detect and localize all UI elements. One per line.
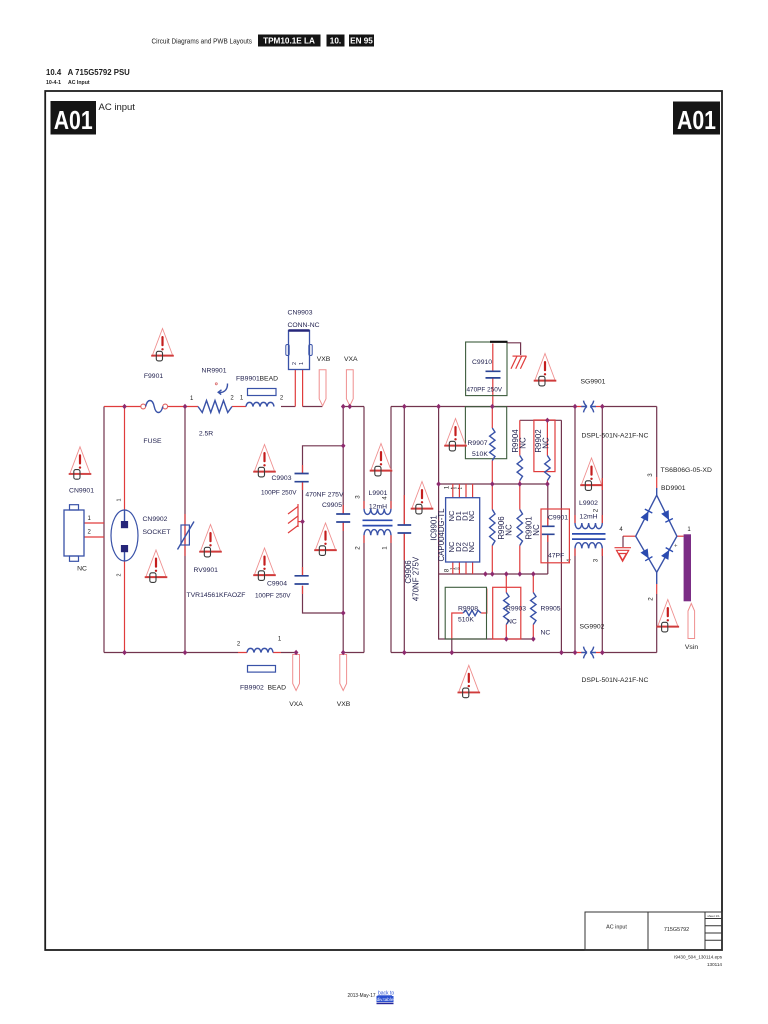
connector CN9901 — [64, 488, 94, 573]
wire R9908 connections — [452, 589, 487, 639]
wire CN9901 pins — [84, 523, 104, 537]
svg-text:NC: NC — [532, 524, 541, 536]
svg-text:715G5792: 715G5792 — [664, 927, 689, 933]
capacitor C9910 — [466, 342, 508, 396]
svg-text:470PF 250V: 470PF 250V — [467, 387, 503, 394]
wire Y-cap branch bottom — [303, 586, 344, 613]
svg-text:NC: NC — [467, 510, 476, 521]
svg-text:12mH: 12mH — [579, 514, 597, 521]
svg-text:I9430_504_130114.eps: I9430_504_130114.eps — [674, 955, 723, 960]
wire live bus at C9905 — [343, 406, 364, 408]
warning triangle at F9901 — [151, 329, 174, 361]
svg-text:AC Input: AC Input — [68, 80, 90, 86]
resistor R9901 — [517, 510, 541, 546]
wire bridge pin 3 net — [656, 407, 658, 478]
earth ground at bridge pin 4 — [615, 548, 632, 562]
svg-text:R9905: R9905 — [541, 606, 561, 613]
wire L9901 pin 3 — [363, 407, 365, 509]
svg-text:L9901: L9901 — [369, 490, 388, 497]
warning triangle at C9903 — [253, 445, 276, 477]
capacitor C9904 — [255, 576, 309, 600]
wire R9904 R9902 top link — [520, 419, 562, 421]
svg-text:DSPL-501N-A21F-NC: DSPL-501N-A21F-NC — [582, 433, 649, 440]
warning triangle at C9905 — [314, 523, 337, 555]
svg-text:FB9902: FB9902 — [240, 685, 264, 692]
wire L9901 pin 4 — [390, 407, 392, 509]
svg-text:C9903: C9903 — [271, 475, 291, 482]
wire IC bottom bus — [439, 573, 548, 575]
wire long NC net — [560, 420, 562, 652]
wire FB9902 stubs — [238, 652, 281, 654]
wire fuse to NR9901 — [168, 406, 198, 408]
junction nodes — [122, 404, 604, 655]
warning triangle at CN9902 — [145, 550, 168, 582]
svg-text:2: 2 — [280, 396, 284, 402]
svg-text:R9903: R9903 — [506, 606, 526, 613]
spark gap SG9902 — [580, 624, 605, 659]
svg-text:2: 2 — [117, 574, 123, 577]
warning triangle at C9906 — [411, 482, 434, 514]
wire R9905 stubs — [532, 574, 534, 639]
net flag VXA bottom — [289, 655, 303, 709]
wire CN9902 net — [124, 407, 126, 653]
svg-text:1: 1 — [278, 637, 282, 643]
wire IC top bus — [439, 483, 548, 485]
title block box — [585, 912, 722, 950]
svg-text:EN 95: EN 95 — [350, 37, 373, 46]
svg-text:VXB: VXB — [337, 701, 351, 708]
svg-text:2: 2 — [88, 530, 92, 536]
svg-text:CN9903: CN9903 — [288, 310, 313, 317]
wire SG9901 stubs — [575, 406, 602, 408]
svg-text:BEAD: BEAD — [268, 685, 287, 692]
svg-text:NC: NC — [77, 566, 87, 573]
warning triangle at L9902 — [580, 458, 603, 490]
schematic frame — [45, 91, 722, 950]
capacitor C9905 — [305, 492, 350, 523]
svg-text:VXA: VXA — [344, 356, 358, 363]
svg-text:10.: 10. — [330, 37, 341, 46]
svg-text:TVR14561KFAOZF: TVR14561KFAOZF — [187, 592, 246, 599]
resistor R9906 — [490, 510, 514, 546]
svg-text:div.table: div.table — [377, 997, 394, 1002]
resistor R9907 — [465, 407, 506, 461]
wire bridge pin 2 net — [656, 572, 658, 584]
wire L9901 pin 2 — [363, 535, 365, 652]
svg-text:R9908: R9908 — [458, 606, 478, 613]
svg-text:100PF 250V: 100PF 250V — [261, 490, 297, 497]
wire SG9902 stubs — [575, 652, 602, 654]
svg-text:100PF 250V: 100PF 250V — [255, 593, 291, 600]
svg-text:+: + — [674, 544, 678, 550]
warning triangle at RV9901 — [199, 525, 222, 557]
svg-text:4: 4 — [619, 527, 623, 533]
svg-text:2013-May-17: 2013-May-17 — [348, 993, 376, 999]
svg-text:CONN-NC: CONN-NC — [287, 322, 319, 329]
resistor R9908 — [445, 587, 486, 639]
wire FB9902 to VXA — [281, 653, 296, 656]
svg-text:L9902: L9902 — [579, 500, 598, 507]
wire IC9901 top pin stubs — [453, 484, 473, 498]
wire neutral bus after choke — [391, 652, 575, 654]
wire R9903 stubs — [505, 574, 507, 639]
wire C9910 to chassis ground — [507, 343, 521, 355]
svg-text:10-4-1: 10-4-1 — [46, 80, 61, 86]
wire neutral rail left — [104, 652, 238, 654]
svg-text:R9907: R9907 — [468, 440, 488, 447]
wire neutral bus to bridge — [602, 652, 656, 654]
IC9901 CAP004DG-TL — [430, 485, 480, 572]
resistor R9904 — [511, 429, 528, 481]
socket CN9902 — [111, 499, 170, 577]
svg-text:1: 1 — [240, 396, 244, 402]
svg-text:1: 1 — [687, 527, 691, 533]
capacitor C9906 — [398, 525, 421, 601]
svg-text:BEAD: BEAD — [260, 376, 279, 383]
sheet label A01 right — [673, 102, 720, 135]
svg-text:DSPL-501N-A21F-NC: DSPL-501N-A21F-NC — [582, 677, 649, 684]
svg-text:RV9901: RV9901 — [194, 567, 219, 574]
svg-text:A01: A01 — [54, 105, 93, 135]
resistor R9903 — [493, 587, 527, 639]
wire R9904 stubs — [519, 420, 521, 484]
resistor R9905 — [531, 593, 561, 637]
svg-text:TS6B06G-05-XD: TS6B06G-05-XD — [661, 467, 712, 474]
warning triangle at CN9901 — [69, 447, 92, 479]
header black tab 10. — [327, 35, 345, 47]
wire Y-cap branch top — [303, 446, 344, 473]
wire RV9901 net — [184, 407, 186, 653]
svg-text:TPM10.1E LA: TPM10.1E LA — [263, 37, 315, 46]
svg-text:CAP004DG-TL: CAP004DG-TL — [437, 508, 446, 562]
svg-text:AC input: AC input — [99, 102, 136, 113]
svg-text:AC input: AC input — [606, 925, 627, 931]
wire R9901 stubs — [519, 484, 521, 574]
svg-text:NC: NC — [541, 630, 551, 637]
svg-text:A01: A01 — [677, 105, 716, 135]
svg-text:3: 3 — [593, 558, 600, 562]
svg-text:10.4 A 715G5792 PSU: 10.4 A 715G5792 PSU — [46, 68, 130, 77]
svg-text:2: 2 — [292, 362, 298, 365]
wire C9901 net — [547, 484, 549, 574]
common mode choke L9902 — [566, 500, 606, 562]
svg-text:C9904: C9904 — [267, 581, 287, 588]
svg-text:SOCKET: SOCKET — [143, 529, 171, 536]
svg-text:2: 2 — [648, 597, 655, 601]
ferrite bead FB9902 — [237, 637, 286, 692]
svg-text:FUSE: FUSE — [143, 438, 162, 445]
capacitor C9903 — [261, 474, 309, 497]
svg-text:1: 1 — [88, 516, 92, 522]
wire live rail to fuse — [104, 406, 141, 408]
capacitor C9901 — [541, 509, 569, 563]
resistor R9902 — [534, 420, 555, 481]
warning triangle at R9907 — [444, 419, 467, 451]
thick bus to Vsin — [684, 534, 691, 601]
wire bridge pin 4 to ground — [623, 535, 636, 537]
wire IC9901 bottom pin stubs — [453, 562, 473, 574]
connector CN9903 CONN-NC — [286, 310, 320, 370]
svg-text:1: 1 — [299, 362, 305, 365]
svg-text:4: 4 — [382, 496, 389, 500]
svg-text:FB9901: FB9901 — [236, 376, 260, 383]
wire C9906 net — [403, 407, 405, 653]
warning triangle at C9910 — [534, 354, 557, 386]
svg-text:CN9902: CN9902 — [143, 516, 168, 523]
svg-text:NC: NC — [507, 619, 517, 626]
svg-text:NC: NC — [542, 437, 551, 449]
svg-text:SG9901: SG9901 — [581, 379, 606, 386]
wire bridge pin 1 — [677, 535, 684, 537]
wire C9905 vertical net — [342, 407, 344, 653]
svg-text:VXA: VXA — [289, 701, 303, 708]
warning triangle at L9901 — [370, 444, 393, 476]
svg-text:◄D/C◄◄: ◄D/C◄◄ — [450, 486, 463, 490]
warning triangle at neutral rail — [458, 665, 481, 697]
svg-text:1: 1 — [117, 499, 123, 502]
svg-text:NC: NC — [519, 437, 528, 449]
svg-text:2.5R: 2.5R — [199, 431, 213, 438]
svg-text:C9910: C9910 — [472, 359, 492, 366]
wire R9902 stubs — [546, 420, 548, 484]
svg-text:SG9902: SG9902 — [580, 624, 605, 631]
svg-text:NC: NC — [467, 541, 476, 552]
net flag VXB bottom — [337, 655, 351, 709]
svg-text:510K: 510K — [472, 451, 488, 458]
wire live bus after choke — [391, 406, 575, 408]
svg-text:47PF: 47PF — [548, 553, 564, 560]
svg-text:12mH: 12mH — [369, 504, 387, 511]
net flag Vsin — [685, 604, 698, 652]
svg-text:►◄D/D: ►◄D/D — [450, 567, 460, 571]
spark gap SG9901 — [581, 379, 606, 413]
wire L9902 right leg — [601, 407, 603, 653]
header black tab EN 95 — [349, 35, 374, 47]
svg-text:VXB: VXB — [317, 356, 331, 363]
wire R9907 net — [491, 407, 493, 485]
wire L9902 left leg — [574, 407, 576, 653]
chassis ground at Y-caps — [288, 504, 303, 533]
wire CN9903 pin 2 to VXB — [302, 370, 304, 407]
wire neutral bus at C9905 — [343, 652, 364, 654]
fuse F9901 — [141, 373, 194, 445]
svg-text:470NF 275V: 470NF 275V — [412, 556, 421, 601]
warning triangle at bridge — [657, 600, 680, 632]
svg-text:F9901: F9901 — [144, 373, 163, 380]
svg-text:510K: 510K — [458, 617, 474, 624]
varistor RV9901 — [178, 522, 246, 600]
svg-text:1: 1 — [190, 396, 194, 402]
wire L9901 pin 1 — [390, 535, 392, 652]
svg-text:NR9901: NR9901 — [202, 368, 227, 375]
warning triangle at C9904 — [253, 548, 276, 580]
svg-text:C9901: C9901 — [548, 515, 568, 522]
svg-text:C9905: C9905 — [322, 502, 342, 509]
svg-text:2: 2 — [593, 508, 600, 512]
chassis ground at C9910 — [511, 356, 527, 369]
svg-text:3: 3 — [647, 473, 654, 477]
svg-text:2: 2 — [237, 642, 241, 648]
svg-text:sheet 1/1: sheet 1/1 — [707, 914, 720, 918]
wire Y-cap branch middle — [302, 482, 304, 575]
common mode choke L9901 — [355, 490, 393, 550]
wire left rail — [103, 407, 105, 653]
svg-text:CN9901: CN9901 — [69, 488, 94, 495]
net flag VXA top — [344, 356, 358, 406]
header black tab TPM10.1E LA — [258, 35, 321, 47]
svg-text:2: 2 — [355, 546, 362, 550]
svg-text:1: 1 — [382, 546, 389, 550]
svg-text:2: 2 — [230, 396, 234, 402]
wire R9906 stubs — [491, 484, 493, 574]
sheet label A01 left — [51, 101, 97, 135]
wire drop to neutral rail — [451, 639, 453, 653]
svg-text:470NF 275V: 470NF 275V — [305, 492, 344, 499]
wire IC loop left — [438, 407, 440, 575]
svg-text:3: 3 — [355, 495, 362, 499]
svg-text:BD9901: BD9901 — [661, 485, 686, 492]
ferrite bead FB9901 — [236, 376, 284, 407]
svg-text:NC: NC — [505, 524, 514, 536]
svg-text:130114: 130114 — [707, 962, 722, 967]
wire live bus to bridge — [602, 406, 656, 408]
net flag VXB top — [317, 356, 331, 406]
svg-text:Vsin: Vsin — [685, 644, 698, 651]
thermistor NR9901 — [198, 368, 234, 438]
wire NR9901 to FB9901 — [232, 406, 246, 408]
wire NC loop bottom — [439, 574, 534, 639]
svg-text:Circuit Diagrams and PWB Layou: Circuit Diagrams and PWB Layouts — [152, 37, 253, 46]
bridge rectifier BD9901 — [619, 467, 712, 601]
wire C9910 net — [492, 344, 494, 407]
wire FB9901 to CN9903 pin 1 — [281, 406, 295, 408]
